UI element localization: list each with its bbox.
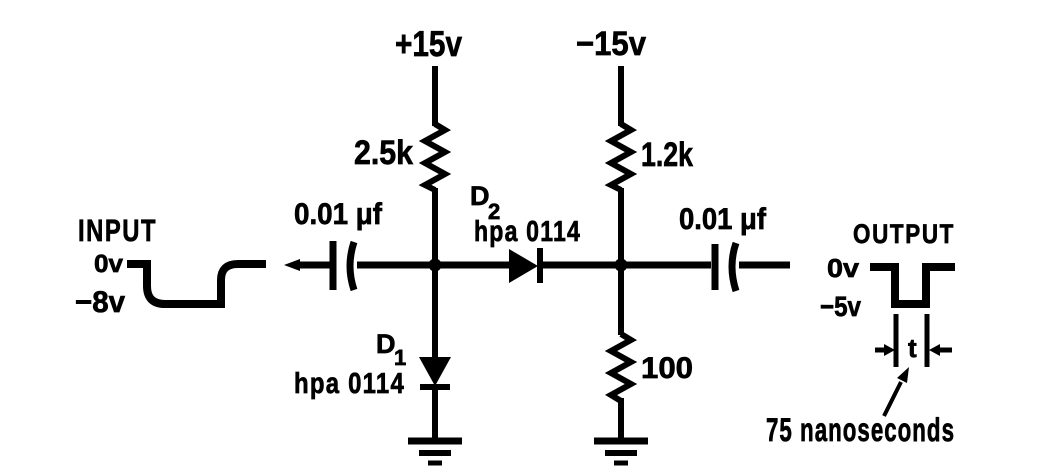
svg-text:hpa 0114: hpa 0114 <box>294 368 405 400</box>
svg-text:2.5k: 2.5k <box>354 134 413 172</box>
svg-text:+15v: +15v <box>395 23 462 64</box>
svg-text:−5v: −5v <box>820 291 861 322</box>
wire from C1 to node A <box>357 262 511 269</box>
diode D1 cathode bar <box>420 384 450 390</box>
svg-text:OUTPUT: OUTPUT <box>853 219 955 249</box>
ground symbol right <box>594 441 648 463</box>
capacitor C2 right curved plate <box>732 243 736 291</box>
diode D1 triangle pointing down <box>419 357 451 386</box>
svg-text:100: 100 <box>641 352 693 385</box>
wire from C2 to output <box>739 262 790 269</box>
svg-text:0v: 0v <box>827 253 860 283</box>
capacitor C2 left plate <box>712 244 719 290</box>
diode D2 cathode bar <box>537 248 543 283</box>
svg-text:0.01 μf: 0.01 μf <box>294 198 383 231</box>
svg-text:INPUT: INPUT <box>78 213 157 248</box>
svg-text:t: t <box>908 333 917 363</box>
input waveform pulse <box>127 264 266 304</box>
svg-text:1.2k: 1.2k <box>641 136 693 174</box>
svg-text:−8v: −8v <box>75 286 125 319</box>
svg-text:D: D <box>470 181 490 211</box>
wire from node B to resistor R3 <box>618 265 624 335</box>
svg-text:hpa 0114: hpa 0114 <box>474 216 581 248</box>
wire from +15v to resistor R1 <box>432 66 438 126</box>
callout arrow to t <box>884 367 909 416</box>
wire from arrow to capacitor C1 <box>297 262 330 269</box>
svg-text:−15v: −15v <box>576 25 646 63</box>
resistor R2 1.2k <box>611 124 631 190</box>
svg-text:0v: 0v <box>94 250 123 278</box>
svg-text:0.01 μf: 0.01 μf <box>679 203 767 236</box>
dimension arrow right pointing left <box>929 344 952 356</box>
output waveform pulse <box>870 267 955 304</box>
svg-text:1: 1 <box>394 345 406 370</box>
dimension tick right <box>925 314 930 367</box>
ground symbol left <box>408 441 462 463</box>
capacitor C1 right curved plate <box>350 242 354 290</box>
capacitor C1 left plate <box>330 241 337 290</box>
resistor R3 100 <box>611 334 631 401</box>
dimension arrow left pointing right <box>875 344 895 356</box>
node B junction dot <box>615 259 628 272</box>
resistor R1 2.5k <box>425 124 445 190</box>
dimension tick left <box>894 314 899 367</box>
wire from node A to diode D1 <box>432 265 438 358</box>
arrow on input wire pointing left <box>284 259 300 271</box>
wire from -15v to resistor R2 <box>618 66 624 126</box>
node A junction dot <box>429 259 442 272</box>
wire from D1 to ground <box>432 387 438 441</box>
svg-text:75 nanoseconds: 75 nanoseconds <box>766 411 955 448</box>
diode D2 triangle <box>509 249 538 283</box>
wire from R3 to ground <box>618 398 624 441</box>
wire from D2 to node B <box>543 262 711 269</box>
wire from R2 to node B <box>618 188 624 268</box>
svg-text:D: D <box>376 329 396 359</box>
wire from R1 to node A <box>432 188 438 268</box>
